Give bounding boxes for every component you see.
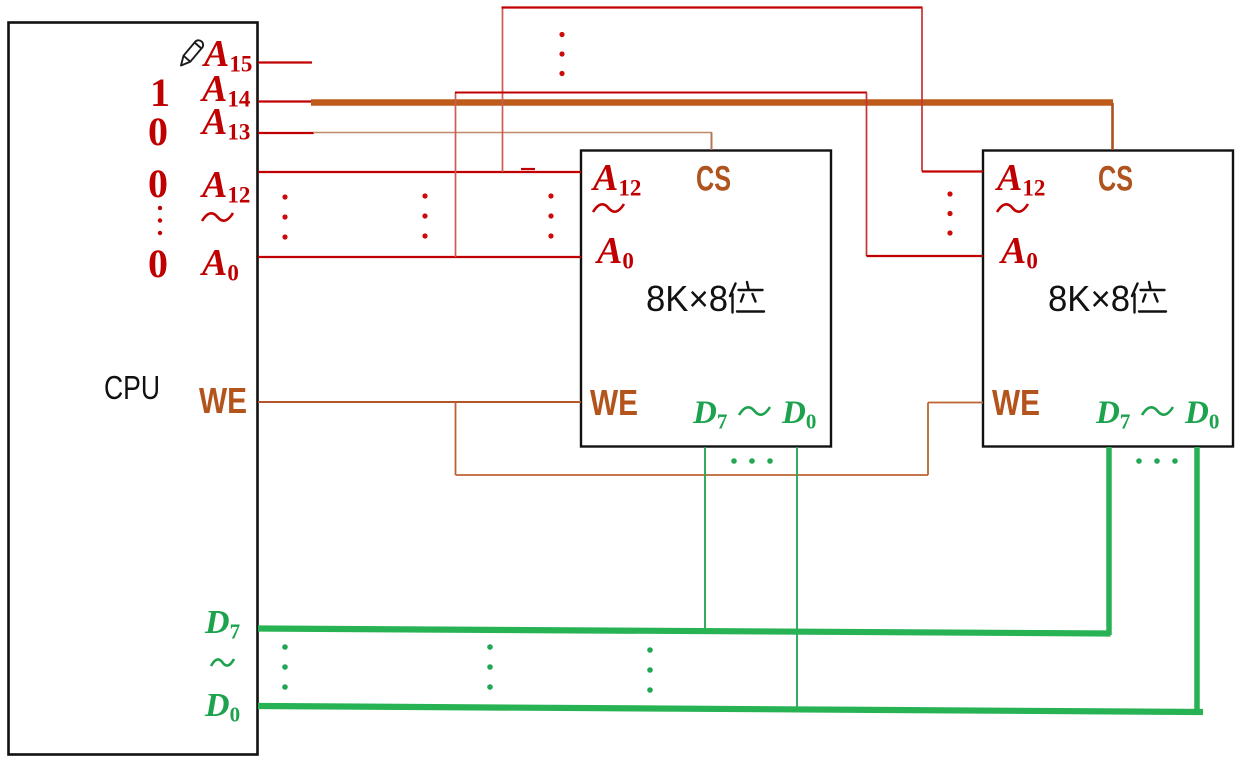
wire WE branch drop (455, 402, 457, 475)
ellipsis data bus x650 (647, 647, 653, 693)
U2 tilde D (1142, 407, 1173, 415)
U1 hanzi WEI (bit) (730, 282, 764, 313)
ellipsis data bus x285 (282, 644, 288, 690)
wire A12 to U1 (258, 171, 581, 173)
wire A12 top run (502, 6, 923, 8)
ellipsis address bus x551 (548, 193, 553, 238)
wire U1 D0 drop (796, 447, 798, 708)
wire A0 drop to U2 (866, 93, 868, 257)
wire WE entry U2 (928, 402, 983, 404)
wire A14 thick brown bus to U2 CS (311, 99, 1113, 105)
wire A12 crossing dash (521, 168, 535, 170)
wire A13 red stub (258, 132, 314, 134)
wire A15 stub (258, 61, 312, 63)
svg-text:WE: WE (992, 382, 1040, 423)
wire A0 entry U2 (867, 255, 984, 257)
wire A0 branch riser (455, 93, 457, 258)
wire U1 D7 drop (704, 447, 706, 630)
wire A12 entry U2 (922, 170, 983, 172)
U2 hanzi WEI (bit) (1132, 282, 1166, 313)
wire A0 upper run (455, 92, 867, 94)
svg-text:A0: A0 (200, 242, 239, 286)
wire vertical into U1 CS (711, 133, 713, 151)
ellipsis address bits (inside CPU) (158, 206, 162, 235)
wire vertical into U2 CS (1111, 103, 1114, 150)
ellipsis address bus top (559, 32, 564, 76)
wire WE main (258, 401, 581, 403)
wire A12 branch riser (502, 8, 504, 173)
wire D7 bus thick (258, 629, 1111, 634)
ellipsis data bus x490 (487, 644, 493, 690)
svg-text:D0: D0 (204, 687, 240, 727)
wire U2 D7 drop thick (1106, 447, 1112, 635)
wire D0 bus thick (258, 706, 1203, 712)
wire WE branch rise (927, 403, 929, 476)
tilde D7~D0 (CPU) (211, 659, 234, 666)
svg-text:CPU: CPU (104, 369, 160, 406)
pencil icon (181, 40, 203, 65)
wire WE branch run (456, 474, 929, 476)
U1 tilde D (739, 407, 770, 415)
svg-text:CS: CS (1098, 160, 1133, 199)
svg-text:WE: WE (590, 382, 638, 423)
svg-text:WE: WE (199, 380, 247, 421)
ellipsis address bus x950 (947, 191, 952, 235)
wire A0 to U1 (258, 256, 581, 258)
svg-text:CS: CS (696, 160, 731, 199)
U1 tilde (593, 204, 624, 212)
svg-text:8K×8: 8K×8 (646, 278, 728, 319)
memory chip U1 box (8K x 8) (581, 151, 831, 447)
svg-text:D7: D7 (204, 604, 240, 644)
ellipsis data U2 (1136, 458, 1178, 464)
wire A12 drop to U2 (921, 8, 923, 172)
svg-text:0: 0 (148, 161, 168, 206)
ellipsis address bus x285 (282, 194, 287, 239)
wire A14 red stub (258, 100, 318, 102)
tilde A12~A0 (CPU) (202, 213, 233, 221)
wire U2 D0 drop thick (1194, 447, 1200, 714)
svg-text:8K×8: 8K×8 (1048, 278, 1130, 319)
memory chip U2 box (8K x 8) (983, 151, 1233, 447)
wire A13 thin brown line to U1 CS (313, 132, 712, 134)
svg-text:0: 0 (148, 241, 168, 286)
svg-text:A12: A12 (200, 164, 250, 208)
U2 tilde (997, 204, 1028, 212)
svg-text:0: 0 (148, 109, 168, 154)
ellipsis address bus x425 (422, 193, 427, 238)
CPU box (9, 23, 258, 755)
ellipsis data U1 (731, 458, 773, 464)
